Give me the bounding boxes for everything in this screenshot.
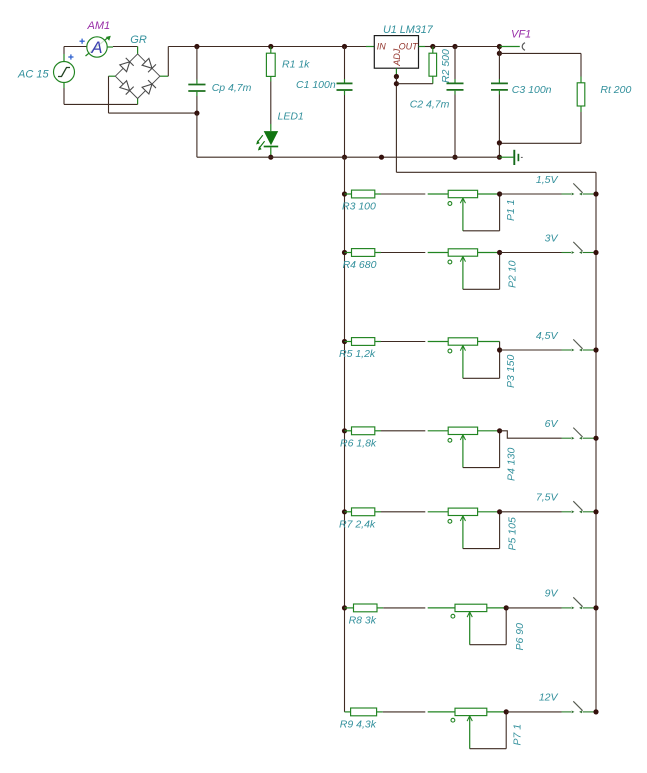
wire row 5 resistor to potentiometer [381,511,425,513]
svg-text:C3 100n: C3 100n [512,84,552,96]
junction left bus row 4 [342,428,347,433]
wire R1 to LED1 [270,82,272,125]
wire output rail segment 2 [455,46,499,48]
junction row 1 tap node [497,191,502,196]
wire VF1 node to C3 [498,47,500,54]
svg-text:R5 1,2k: R5 1,2k [339,348,376,360]
capacitor C2 4,7m [447,47,464,158]
svg-text:Rt 200: Rt 200 [600,84,631,96]
wire left bus (ground net) [344,157,346,712]
resistor R6 1,8k [345,427,382,435]
svg-text:LED1: LED1 [278,110,304,122]
resistor R4 680 [345,249,382,257]
junction C3 bottom / Rt loop [497,140,502,145]
resistor Rt 200 [577,77,585,113]
junction C3 top [497,51,502,56]
wire row 5 pot to tap junction [478,511,500,513]
svg-text:P4 130: P4 130 [506,448,518,481]
svg-text:7,5V: 7,5V [536,492,559,504]
wire row 2 wiper return [463,253,500,290]
wire row 5 tap to switch [500,511,562,513]
junction row 7 tap node [504,709,509,714]
capacitor C1 100n [337,47,353,158]
resistor R5 1,2k [345,338,382,346]
wire R2 bottom to ADJ node [396,83,432,85]
wire row 6 wiper return [470,608,507,645]
potentiometer P1 1 [448,190,478,231]
wire row 4 pot to tap junction [478,430,500,432]
svg-text:AM1: AM1 [87,20,111,32]
wire row 3 tap to switch [500,349,562,351]
switch S3 [562,339,597,351]
wire row 1 pot pin [428,193,449,195]
junction node N [194,111,199,116]
ammeter AM1 [86,36,111,57]
junction LED1 cathode / ground rail [268,155,273,160]
svg-text:P7 1: P7 1 [512,724,524,746]
wire row 4 pot pin [428,430,449,432]
plus polarity mark (AM1) [80,39,85,44]
junction row 6 tap node [504,605,509,610]
wire ADJ line horizontal [396,171,596,173]
svg-text:AC 15: AC 15 [17,68,49,80]
switch S1 [562,183,597,195]
wire row 4 wiper return [463,431,500,468]
wire row 1 pot to tap junction [478,193,500,195]
junction OUT / R2 [430,44,435,49]
junction left bus row 2 [342,250,347,255]
ground symbol [499,150,522,165]
potentiometer P2 10 [448,249,478,289]
wire row 2 tap to switch [500,252,562,254]
wire C3 top to Rt top [499,53,581,76]
switch S6 [562,597,597,609]
junction row 3 tap node [497,347,502,352]
svg-text:P5 105: P5 105 [507,517,519,550]
svg-text:3V: 3V [545,232,559,244]
wire row 7 resistor to potentiometer [383,711,426,713]
wire row 6 resistor to potentiometer [383,607,425,609]
resistor R9 4,3k [345,708,383,716]
wire row 3 pot pin [428,341,449,343]
potentiometer P7 1 [451,708,487,749]
wire to ground node [498,143,500,157]
wire row 5 pot pin [428,511,449,513]
junction C2 bottom [452,155,457,160]
AC source AC 15 [54,54,75,88]
wire row 7 tap to switch [506,711,561,713]
svg-text:U1 LM317: U1 LM317 [383,24,434,36]
junction row 2 tap node [497,250,502,255]
wire row 5 wiper return [463,512,500,549]
svg-text:GR: GR [130,34,147,46]
junction left bus row 3 [342,339,347,344]
wire bridge negative to node N (Cp-) [109,76,197,113]
IC regulator U1 LM317 [366,36,425,77]
wire AC source - to bridge [64,88,138,104]
junction C2 top [452,44,457,49]
wire AC source + to ammeter [64,47,87,55]
junction C1 top [342,44,347,49]
switch S7 [562,701,597,713]
switch S5 [562,501,597,513]
svg-text:C2 4,7m: C2 4,7m [410,98,450,110]
svg-text:R2 500: R2 500 [440,49,452,83]
svg-text:6V: 6V [545,418,559,430]
wire row 1 resistor to potentiometer [381,193,425,195]
junction ADJ pin node [394,74,399,79]
wire row 2 pot to tap junction [478,252,500,254]
svg-text:P6 90: P6 90 [514,623,526,651]
wire row 4 resistor to potentiometer [381,430,425,432]
junction VF1 node [497,44,502,49]
svg-text:R9 4,3k: R9 4,3k [340,719,377,731]
svg-text:P1 1: P1 1 [505,199,517,221]
wire row 4 jog to switch [500,431,562,438]
potentiometer P5 105 [448,508,478,548]
wire row 7 pot pin [428,711,455,713]
resistor R2 500 [429,47,437,84]
junction right bus row 3 [593,347,598,352]
junction ground node [497,155,502,160]
terminal VF1 [499,43,525,51]
wire row 3 resistor to potentiometer [381,341,425,343]
wire ammeter to bridge AC input [107,46,137,49]
wire row 6 pot pin [428,607,455,609]
junction right bus row 5 [593,509,598,514]
svg-text:4,5V: 4,5V [536,330,559,342]
svg-text:9V: 9V [545,588,559,600]
resistor R7 2,4k [345,508,382,516]
switch S2 [562,242,597,254]
plus polarity mark (AC source) [68,54,73,59]
wire row 3 wiper return [463,350,500,378]
svg-text:R3 100: R3 100 [342,201,376,213]
svg-text:R8 3k: R8 3k [349,615,377,627]
wire node N to ground rail [196,113,198,157]
switch S4 [562,428,597,440]
wire right bus (ADJ net) [595,172,597,712]
wire row 7 pot to tap junction [487,711,506,713]
junction row 5 tap node [497,509,502,514]
bridge rectifier GR [109,47,169,105]
junction R1 top [268,44,273,49]
junction row 4 tap node [497,428,502,433]
svg-text:VF1: VF1 [511,29,531,41]
svg-text:C1 100n: C1 100n [296,79,336,91]
junction left bus row 1 [342,191,347,196]
wire row 7 wiper return [470,712,507,749]
wire row 2 resistor to potentiometer [381,252,425,254]
junction right bus row 4 [593,436,598,441]
wire OUT pin to output rail [425,46,433,48]
svg-text:12V: 12V [539,692,559,704]
junction ground rail node [379,155,384,160]
capacitor C3 100n [491,53,508,142]
wire row 1 wiper return [463,194,500,231]
junction left bus row 6 [342,605,347,610]
resistor R3 100 [345,190,382,198]
svg-text:R4 680: R4 680 [343,259,377,271]
wire output rail segment [433,46,455,48]
wire Rt bottom to C3 bottom [499,112,581,143]
svg-text:R7 2,4k: R7 2,4k [339,518,376,530]
junction right bus row 1 [593,191,598,196]
svg-text:A: A [91,39,103,57]
junction right bus row 7 [593,709,598,714]
resistor R8 3k [345,604,384,612]
junction left bus row 5 [342,509,347,514]
resistor R1 1k [266,47,275,82]
svg-text:P3 150: P3 150 [505,355,517,388]
svg-text:R6 1,8k: R6 1,8k [340,437,377,449]
LED LED1 [256,124,278,157]
junction right bus row 2 [593,250,598,255]
junction C1 bottom / left bus [342,155,347,160]
potentiometer P6 90 [451,604,487,645]
junction right bus row 6 [593,605,598,610]
potentiometer P3 150 [448,338,478,379]
wire row 3 pot to tap junction [478,342,500,351]
wire bridge positive to top rail [168,47,366,77]
svg-text:P2 10: P2 10 [507,260,519,288]
svg-text:IN: IN [377,41,387,51]
junction ADJ / R2 bottom [394,81,399,86]
svg-text:ADJ: ADJ [392,48,402,67]
junction Cp top [194,44,199,49]
capacitor Cp 4,7m [188,47,205,114]
wire row 2 pot pin [428,252,449,254]
svg-text:Cp 4,7m: Cp 4,7m [212,82,252,94]
svg-text:1,5V: 1,5V [536,174,559,186]
wire row 6 pot to tap junction [487,607,506,609]
ground rail wire [197,156,500,158]
wire row 1 tap to switch [500,193,562,195]
wire row 6 tap to switch [506,607,561,609]
potentiometer P4 130 [448,427,478,468]
wire ADJ node down [395,77,397,173]
svg-text:R1 1k: R1 1k [282,59,310,71]
